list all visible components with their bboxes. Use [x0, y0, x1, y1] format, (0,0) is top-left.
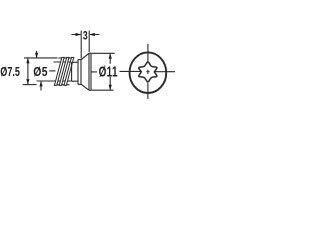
- front view horizontal centerline left (with dia11 leader): [120, 70, 143, 72]
- thread flight 1 (ribbon): [54, 57, 64, 85]
- head rim bottom: [89, 89, 91, 91]
- collar top: [78, 59, 81, 61]
- dia11 bottom extension line: [91, 89, 113, 91]
- dia5 bottom arrow tail: [40, 82, 42, 91]
- neck top: [72, 61, 78, 63]
- front view vertical centerline bottom: [147, 83, 149, 99]
- thread crest bottom line: [57, 84, 70, 86]
- dia7.5 bottom arrowhead: [26, 79, 29, 84]
- neck bottom: [72, 80, 78, 82]
- dia11 top arrowhead: [109, 53, 112, 58]
- dia7.5 dimension line: [27, 58, 29, 84]
- head face right line: [90, 53, 92, 90]
- dia7.5 top arrowhead: [26, 58, 29, 63]
- dia7.5 bottom tick: [23, 84, 37, 86]
- thread end / neck boundary: [71, 62, 73, 81]
- dim 3 left extension bar: [80, 31, 82, 59]
- cone bottom edge: [81, 84, 89, 90]
- dia7.5 top extension line: [24, 57, 58, 59]
- front view: head outline ellipse: [130, 52, 167, 93]
- dia11 dimension line lower: [109, 77, 111, 90]
- head face left line: [88, 53, 90, 90]
- dim 3 right extension bar: [88, 31, 90, 52]
- dia5 bottom arrowhead: [39, 81, 42, 86]
- front view horizontal centerline right: [154, 71, 175, 73]
- svg-text:Ø11: Ø11: [99, 64, 118, 80]
- collar left edge: [77, 60, 79, 85]
- dia5 top arrow tail: [36, 51, 38, 58]
- head rim top: [89, 52, 91, 54]
- face-to-label stub: [91, 71, 97, 73]
- thread flight 2 (ribbon): [59, 57, 69, 85]
- dim 3 left arrowhead: [76, 33, 81, 36]
- thread flight 3 (ribbon): [64, 57, 74, 85]
- dia11 top extension line: [91, 52, 115, 54]
- cone top edge: [81, 53, 89, 60]
- collar bottom: [78, 83, 81, 85]
- collar right edge / cone start: [80, 60, 82, 85]
- dia11 bottom arrowhead: [109, 85, 112, 90]
- thread core bottom line + dia5 bottom extension: [37, 80, 72, 82]
- dim 3 right arrow tail: [90, 34, 100, 36]
- svg-text:Ø5: Ø5: [33, 65, 48, 79]
- svg-text:3: 3: [83, 30, 88, 43]
- dia5 top arrowhead: [35, 53, 38, 58]
- thread core top line: [54, 61, 72, 63]
- dim 3 left arrow tail: [72, 34, 81, 36]
- front view vertical centerline top: [147, 44, 149, 62]
- center mark horizontal: [146, 71, 149, 73]
- center mark vertical: [147, 70, 149, 74]
- thread crest top line: [59, 57, 72, 59]
- dia5 leader stub: [49, 70, 55, 72]
- dia11 dimension line upper: [109, 54, 111, 64]
- svg-text:Ø7.5: Ø7.5: [0, 66, 20, 80]
- dim 3 right arrowhead: [89, 33, 94, 36]
- star recess outline: [139, 62, 157, 82]
